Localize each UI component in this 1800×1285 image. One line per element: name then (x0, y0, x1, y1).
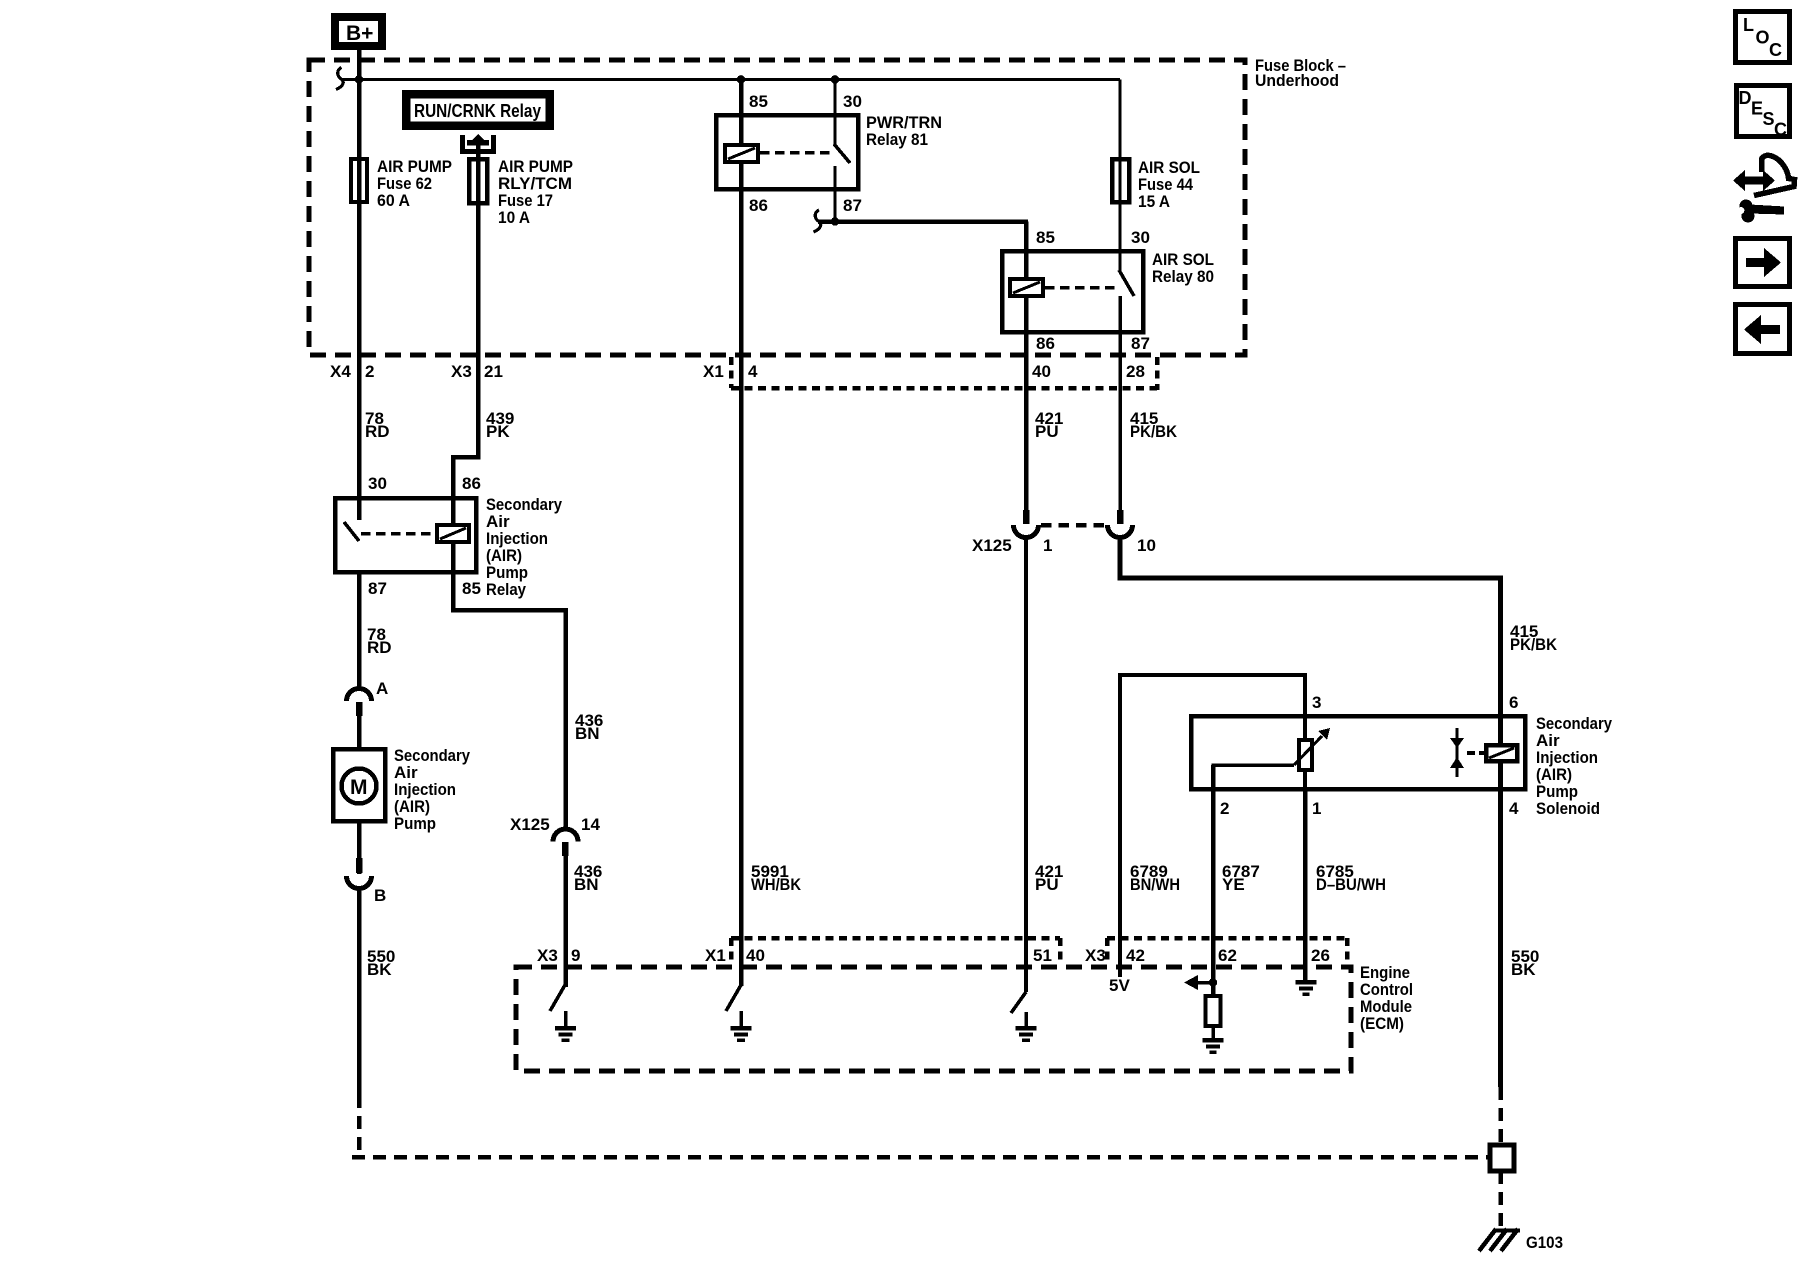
sidebar icon LOC (1736, 12, 1790, 63)
svg-text:X4: X4 (330, 362, 351, 381)
svg-text:Relay 81: Relay 81 (866, 130, 928, 149)
wire 87 horizontal link to relay80 pin85 (818, 219, 1028, 224)
relay Secondary Air Injection (AIR) Pump Relay box (335, 495, 562, 599)
wire 421 PU X125 to ECM pin51 (1024, 537, 1028, 992)
svg-text:30: 30 (843, 92, 862, 111)
svg-text:B+: B+ (346, 22, 373, 45)
svg-text:86: 86 (749, 196, 768, 215)
wire label 436 BN (lower) (574, 862, 602, 894)
wire 550 BK pump to ground run (357, 888, 362, 1095)
ECM ground after resistor (1203, 1026, 1224, 1054)
X125 connector dashed tie (1041, 523, 1106, 528)
wire label 6789 BN/WH (1130, 862, 1180, 894)
svg-text:1: 1 (1043, 536, 1052, 555)
wire relay81 pin30 (834, 80, 837, 145)
svg-text:85: 85 (1036, 228, 1055, 247)
svg-text:O: O (1756, 28, 1770, 48)
ECM driver switch pin 40 (726, 985, 752, 1042)
wire relay80 pin30 (1119, 249, 1122, 271)
svg-text:85: 85 (749, 92, 768, 111)
pump relay coil-switch dashed link (361, 532, 435, 536)
wire relay81 86 output (5991 feed) (739, 161, 744, 986)
relay81 switch arm (834, 144, 850, 163)
svg-text:14: 14 (581, 815, 600, 834)
fuse block connector pin labels (330, 362, 1145, 381)
svg-text:C: C (1774, 120, 1787, 140)
svg-text:86: 86 (462, 474, 481, 493)
svg-text:S: S (1763, 109, 1775, 129)
svg-text:BN: BN (574, 875, 599, 894)
svg-text:D: D (1739, 88, 1752, 108)
ECM driver switch pin 9 (550, 985, 576, 1042)
svg-text:2: 2 (1220, 799, 1229, 818)
svg-text:4: 4 (1509, 799, 1519, 818)
svg-text:5V: 5V (1109, 976, 1130, 995)
svg-text:E: E (1751, 99, 1763, 119)
continuation hook at 87 link (814, 210, 821, 232)
svg-text:Relay: Relay (486, 580, 526, 599)
svg-text:PK/BK: PK/BK (1130, 422, 1178, 441)
svg-text:A: A (376, 679, 388, 698)
wire 78 RD pump relay pin87 to connector A (357, 572, 362, 690)
svg-text:PU: PU (1035, 875, 1059, 894)
svg-text:30: 30 (368, 474, 387, 493)
continuation hook (bus to other circuits) (336, 68, 343, 90)
relay AIR SOL Relay 80 box (1002, 250, 1214, 332)
pump relay pin labels (368, 474, 481, 598)
svg-text:BN/WH: BN/WH (1130, 875, 1180, 894)
wire label 439 PK (486, 409, 514, 441)
in-line connector B (347, 858, 387, 905)
RUN/CRNK Relay source label box (406, 94, 551, 127)
svg-text:9: 9 (571, 946, 580, 965)
svg-text:42: 42 (1126, 946, 1145, 965)
wire pump relay pin85 out (453, 541, 566, 829)
ECM pull resistor at pin 62 (1206, 996, 1221, 1026)
svg-text:Solenoid: Solenoid (1536, 799, 1600, 818)
solenoid pin labels (1220, 693, 1519, 818)
wire 6789 BN/WH solenoid pin3 to ECM pin42 (1120, 675, 1305, 977)
pump relay switch arm (344, 522, 359, 541)
svg-text:X125: X125 (972, 536, 1012, 555)
svg-text:2: 2 (365, 362, 374, 381)
svg-text:10: 10 (1137, 536, 1156, 555)
position sensor (variable resistor) in solenoid (1294, 716, 1330, 790)
connector X1 sub-box at ECM (731, 938, 1060, 965)
wire label 415 PK/BK (right) (1510, 622, 1558, 654)
motor Secondary Air Injection (AIR) Pump (333, 746, 470, 833)
terminal tab symbol from RUN/CRNK relay (463, 134, 494, 152)
sensor wiper link to pin2 (1213, 765, 1294, 791)
in-line connector A (347, 679, 389, 716)
svg-text:C: C (1769, 40, 1782, 60)
solenoid Secondary Air Injection (AIR) Pump Solenoid box (1191, 714, 1612, 818)
wire 550 BK off-diagram dashed run to G103 (352, 1095, 1490, 1157)
svg-text:X1: X1 (705, 946, 726, 965)
svg-text:10 A: 10 A (498, 208, 530, 227)
svg-text:RD: RD (367, 638, 392, 657)
fuse AIR PUMP RLY/TCM Fuse 17 10A (469, 142, 573, 355)
svg-text:X3: X3 (451, 362, 472, 381)
ECM pin labels (537, 946, 1330, 965)
wire 439 PK fuse17 to pump relay pin86 (jog) (453, 355, 478, 527)
chassis ground G103 (1479, 1229, 1563, 1252)
svg-text:40: 40 (1032, 362, 1051, 381)
fuse AIR PUMP Fuse 62 60A (351, 157, 452, 355)
relay81 pin labels (749, 92, 862, 215)
svg-text:WH/BK: WH/BK (751, 875, 802, 894)
wire label 436 BN (upper) (575, 711, 603, 743)
relay80 coil (1010, 279, 1043, 296)
svg-text:62: 62 (1218, 946, 1237, 965)
wire 6785 D-BU/WH solenoid pin1 to ECM pin26 (1303, 790, 1308, 981)
svg-text:Underhood: Underhood (1255, 71, 1339, 90)
wire relay80 86 output (421 feed) (1024, 295, 1029, 510)
svg-text:(ECM): (ECM) (1360, 1014, 1404, 1033)
svg-text:85: 85 (462, 579, 481, 598)
relay81 coil-switch dashed link (760, 151, 833, 155)
sidebar icon forward arrow (1736, 239, 1790, 287)
wire 550 BK solenoid pin4 down (1498, 761, 1503, 1087)
wire label 550 BK (left) (367, 947, 395, 979)
svg-text:3: 3 (1312, 693, 1321, 712)
sidebar icon DESC (1737, 86, 1790, 140)
svg-text:X1: X1 (703, 362, 724, 381)
svg-text:26: 26 (1311, 946, 1330, 965)
svg-text:28: 28 (1126, 362, 1145, 381)
svg-text:87: 87 (1131, 334, 1150, 353)
wire 6787 YE solenoid pin2 to ECM pin62 (1211, 765, 1216, 996)
ECM driver switch pin 51 (1011, 992, 1037, 1042)
svg-text:D–BU/WH: D–BU/WH (1316, 875, 1386, 894)
relay81 coil (725, 145, 758, 162)
svg-text:15 A: 15 A (1138, 192, 1170, 211)
in-line connector X125 pin 14 (510, 815, 600, 856)
wire label 550 BK (right) (1511, 947, 1539, 979)
connector X3 sub-box at ECM (1107, 938, 1347, 965)
in-line connector X125 pin 10 (1108, 510, 1156, 555)
relay PWR/TRN Relay 81 box (716, 113, 942, 189)
wire 415 PK/BK X125 to solenoid pin6 (1120, 537, 1501, 745)
svg-text:RUN/CRNK Relay: RUN/CRNK Relay (414, 101, 541, 121)
wire motor to connector B (357, 821, 362, 874)
wire label 78 RD (upper) (365, 409, 390, 441)
ground splice box to G103 (1490, 1087, 1514, 1228)
label Fuse Block - Underhood (1255, 56, 1346, 90)
svg-text:87: 87 (843, 196, 862, 215)
svg-text:PU: PU (1035, 422, 1059, 441)
svg-text:X3: X3 (1085, 946, 1106, 965)
fuse AIR SOL Fuse 44 15A (1112, 80, 1200, 250)
relay80 pin labels (1036, 228, 1150, 353)
wire relay81 pin85 feed (739, 80, 744, 147)
wire label 5991 WH/BK (751, 862, 802, 894)
svg-text:M: M (350, 776, 368, 799)
wire relay80 pin87 contact (1118, 296, 1122, 511)
svg-text:87: 87 (368, 579, 387, 598)
pump relay coil (437, 525, 469, 542)
svg-text:86: 86 (1036, 334, 1055, 353)
battery feed B+ terminal box (335, 17, 382, 46)
svg-text:21: 21 (484, 362, 503, 381)
svg-text:BN: BN (575, 724, 600, 743)
svg-text:30: 30 (1131, 228, 1150, 247)
fuse block underhood (dashed enclosure) (309, 60, 1245, 355)
junction 87 wire / link (831, 217, 840, 226)
wire B+ feed down to fuse 62 (357, 50, 362, 160)
wire label 421 PU (lower) (1035, 862, 1063, 894)
relay80 switch arm (1119, 270, 1134, 296)
svg-text:YE: YE (1222, 875, 1245, 894)
ECM signal arrow at pin 62 (1184, 975, 1217, 990)
svg-text:B: B (374, 886, 386, 905)
svg-text:Pump: Pump (394, 814, 436, 833)
solenoid valve symbol (1450, 728, 1486, 777)
svg-text:BK: BK (367, 960, 392, 979)
svg-text:G103: G103 (1526, 1233, 1563, 1252)
svg-text:PK: PK (486, 422, 510, 441)
wire connector A to motor (357, 716, 362, 748)
wire label 78 RD (lower) (367, 625, 392, 657)
wire 78 RD fuse62 to pump relay pin30 (357, 355, 362, 520)
in-line connector X125 pin 1 (972, 510, 1052, 555)
svg-text:Relay 80: Relay 80 (1152, 267, 1214, 286)
wire relay80 pin85 from link (1024, 222, 1029, 281)
svg-text:51: 51 (1033, 946, 1052, 965)
svg-text:1: 1 (1312, 799, 1321, 818)
svg-text:X125: X125 (510, 815, 550, 834)
svg-text:60 A: 60 A (377, 191, 410, 210)
svg-text:6: 6 (1509, 693, 1518, 712)
wire labels 6787 YE and 6785 D-BU/WH (1222, 862, 1386, 894)
wire label 415 PK/BK (upper) (1130, 409, 1178, 441)
sidebar icon wiring repair (double arrow and wrench) (1733, 155, 1795, 222)
ECM dashed enclosure (516, 963, 1413, 1071)
wire label 421 PU (upper) (1035, 409, 1063, 441)
svg-text:40: 40 (746, 946, 765, 965)
wire relay81 pin87 contact (834, 166, 837, 222)
connector X1 sub-box (fuse block bottom) (731, 357, 1157, 390)
svg-text:PK/BK: PK/BK (1510, 635, 1558, 654)
svg-text:X3: X3 (537, 946, 558, 965)
ECM ground at pin 26 (1296, 980, 1317, 996)
svg-text:RD: RD (365, 422, 390, 441)
svg-text:4: 4 (748, 362, 758, 381)
junction bus / relay81 pin30 wire (831, 75, 840, 84)
svg-text:BK: BK (1511, 960, 1536, 979)
wire 436 BN X125 to ECM pin9 (563, 856, 568, 987)
wire top power bus (341, 78, 1120, 81)
junction B+ / bus (355, 75, 364, 84)
relay80 coil-switch dashed link (1045, 286, 1117, 290)
solenoid coil (1486, 745, 1517, 761)
svg-text:L: L (1743, 15, 1754, 35)
junction bus / relay81 pin85 wire (737, 75, 746, 84)
sidebar icon back arrow (1736, 305, 1790, 354)
